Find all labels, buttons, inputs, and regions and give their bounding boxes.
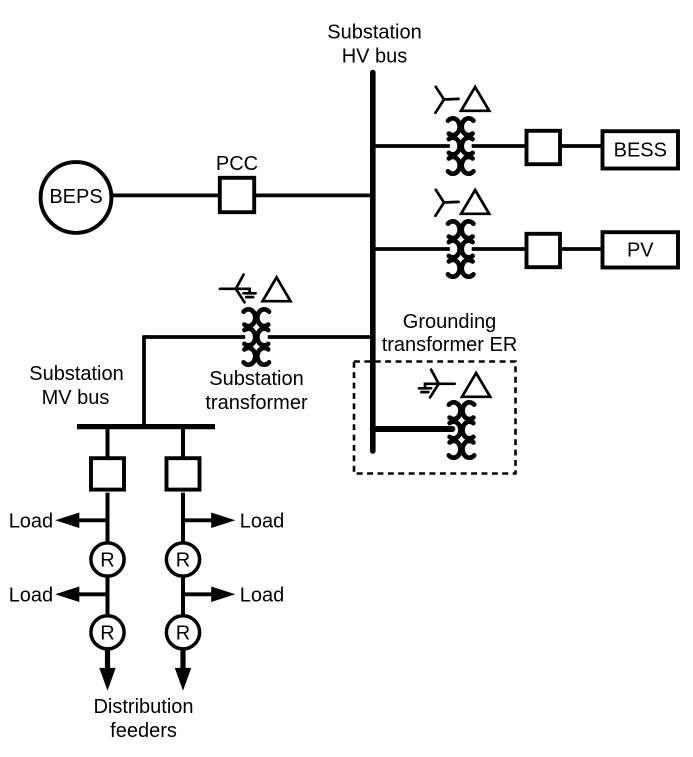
svg-text:PV: PV xyxy=(627,240,654,262)
dashed enclosure (grounding transformer) xyxy=(354,362,516,474)
wire: feeder left drop from MV bus xyxy=(106,427,110,458)
wire: converter to BESS xyxy=(562,144,601,148)
delta symbol (substation transformer secondary) xyxy=(263,277,291,301)
wire: right feeder trunk xyxy=(181,493,185,652)
breaker (left feeder) xyxy=(91,458,124,489)
breaker (right feeder) xyxy=(167,458,200,489)
svg-text:Substation: Substation xyxy=(327,22,422,44)
grounding transformer ER xyxy=(449,402,474,457)
converter (PV) xyxy=(527,234,561,267)
breaker PCC xyxy=(220,178,254,212)
wire: stub to distribution arrow (left) xyxy=(105,650,110,670)
delta symbol (grounding transformer) xyxy=(462,373,490,397)
svg-text:Load: Load xyxy=(240,584,284,606)
load arrow 2 (right feeder) xyxy=(211,587,235,603)
svg-text:Load: Load xyxy=(9,510,54,532)
grounded wye symbol (grounding transformer) xyxy=(419,370,455,398)
protective relay R (right feeder 2) xyxy=(166,616,199,649)
svg-text:transformer ER: transformer ER xyxy=(382,334,518,356)
wire: load tap 2 (left feeder) xyxy=(78,592,108,596)
delta symbol (PV transformer secondary) xyxy=(461,190,489,214)
wire: load tap 2 (right feeder) xyxy=(183,592,213,596)
svg-text:Load: Load xyxy=(240,510,284,532)
svg-text:Grounding: Grounding xyxy=(403,311,496,333)
wire: down to MV bus (vertical) xyxy=(142,335,146,426)
wire: load tap 1 (right feeder) xyxy=(183,518,213,522)
delta symbol (BESS transformer secondary) xyxy=(461,87,489,111)
grounded wye symbol (substation transformer primary) xyxy=(220,275,256,303)
wire: stub to distribution arrow (right) xyxy=(180,650,185,670)
protective relay R (left feeder 1) xyxy=(91,543,124,576)
svg-text:HV bus: HV bus xyxy=(342,46,408,68)
svg-text:Substation: Substation xyxy=(29,363,124,385)
load arrow 1 (right feeder) xyxy=(211,513,235,529)
generator BEPS xyxy=(41,162,112,233)
wye symbol (PV transformer primary) xyxy=(435,190,458,216)
wire: load tap 1 (left feeder) xyxy=(78,518,108,522)
BESS unit xyxy=(603,131,679,168)
transformer T-PV xyxy=(448,221,473,276)
svg-text:R: R xyxy=(100,622,114,644)
wye symbol (BESS transformer primary) xyxy=(435,87,458,113)
svg-text:Distribution: Distribution xyxy=(93,696,193,718)
bus: substation MV bus xyxy=(77,424,215,429)
distribution feeder arrow (right) xyxy=(175,668,191,691)
wire: BESS transformer to converter xyxy=(472,144,526,148)
wire: converter to PV xyxy=(562,247,601,251)
svg-text:BESS: BESS xyxy=(614,140,667,162)
wire: PCC to HV bus xyxy=(256,194,373,198)
distribution feeder arrow (left) xyxy=(99,668,115,691)
svg-text:PCC: PCC xyxy=(216,153,258,175)
wire: feeder right drop from MV bus xyxy=(181,427,185,458)
wire: HV bus to PV transformer xyxy=(373,247,450,251)
load arrow 2 (left feeder) xyxy=(55,587,79,603)
svg-text:R: R xyxy=(100,550,114,572)
wire: substation transformer to MV bus (horizontal) xyxy=(144,335,245,339)
svg-text:R: R xyxy=(176,622,190,644)
svg-text:transformer: transformer xyxy=(205,392,308,414)
wire: substation transformer to HV bus xyxy=(268,335,373,339)
substation transformer xyxy=(244,309,269,364)
svg-text:BEPS: BEPS xyxy=(49,186,102,208)
load arrow 1 (left feeder) xyxy=(55,513,79,529)
converter (BESS) xyxy=(527,131,561,164)
svg-text:Substation: Substation xyxy=(209,368,304,390)
svg-text:MV bus: MV bus xyxy=(42,387,110,409)
protective relay R (left feeder 2) xyxy=(91,616,124,649)
wire: HV bus to grounding transformer (thick) xyxy=(373,426,453,432)
svg-text:feeders: feeders xyxy=(110,720,177,742)
bus: substation HV bus (vertical) xyxy=(370,73,376,452)
PV unit xyxy=(603,232,679,267)
wire: left feeder trunk xyxy=(106,493,110,652)
wire: PV transformer to converter xyxy=(472,247,526,251)
svg-text:R: R xyxy=(176,550,190,572)
protective relay R (right feeder 1) xyxy=(166,543,199,576)
wire: HV bus to BESS transformer xyxy=(373,144,450,148)
svg-text:Load: Load xyxy=(9,584,54,606)
transformer T-BESS xyxy=(448,118,473,173)
wire: BEPS to PCC xyxy=(111,194,218,198)
